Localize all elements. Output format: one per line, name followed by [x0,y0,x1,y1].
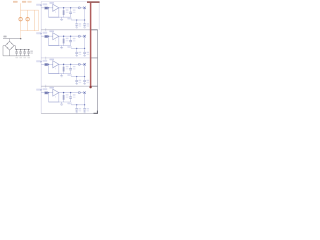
wire AC bottom rail [21,30,39,32]
wire bottom rail block2 [49,45,71,47]
divider dark seg 2 [91,57,98,59]
port bubble OUT1 [78,7,80,9]
junction AC-in [20,38,22,40]
sheet bottom edge [41,113,97,115]
label C3 value [23,57,26,58]
net label text (orange) top-left [13,1,18,3]
lamp/fuse F2 circle [26,18,29,21]
divider box2/box3 [41,57,97,59]
label C12 value [79,23,82,26]
port bubble OUT3 [78,63,80,65]
power bus vertical (red) [90,3,92,89]
resistor R12 (shunt) [63,7,65,17]
net name text IN1 [43,3,48,5]
wire decoupling rail block3 [71,76,85,77]
box1 top edge [41,1,87,3]
divider box1/box2 [41,29,97,31]
wire bridge left out [3,46,5,56]
wire output drop block1 [84,8,86,20]
label C1 value [15,57,18,58]
box pin tick divider 2 [45,57,47,60]
ground symbol block3 [60,74,63,77]
resistor R11 (series) [45,7,48,10]
power flag VCC block2 [67,46,71,48]
wire input block1 [41,7,45,9]
capacitor C4 (filter bank) [27,49,30,56]
op-amp U2 triangle [53,33,59,42]
sheet right edge [96,30,98,114]
wire decoupling rail block2 [71,48,85,49]
capacitor C33 (decoupling) [83,77,86,85]
wire output block2 [59,35,85,37]
box1 right edge (faint) [98,2,100,30]
label R42 value [66,94,69,98]
port bubble OUT4 [78,92,80,94]
wire bottom rail block3 [49,73,71,75]
label R12 value [66,9,69,13]
label C32 value [79,80,82,83]
label C21 value [73,38,76,42]
resistor R22 (shunt) [63,36,65,46]
label C11 value [73,10,76,14]
wire capacitor bottom rail [3,55,30,57]
wire bridge bottom out [9,50,11,56]
circuit schematic canvas [0,0,100,119]
net label IN1 (left of box) [36,4,42,6]
net label text (orange) right [27,1,31,3]
lamp/fuse F1 circle [19,18,22,21]
capacitor C41 (shunt) [69,92,72,102]
wire decoupling rail block1 [71,19,85,20]
wire feedback loop block3 [48,64,59,74]
label R32 value [66,66,69,69]
label C31 value [73,66,76,70]
wire bottom rail block1 [49,16,71,18]
divider dark seg 1 [91,29,98,31]
net label IN2 (left of box) [36,32,42,34]
op-amp U4 triangle [53,89,59,98]
wire AC feed horizontal [3,38,21,40]
label C2 value [19,57,22,58]
wire output drop block3 [84,64,86,76]
label C22 value [79,52,82,55]
ground symbol block1 [60,17,63,20]
net name text IN4 [43,88,48,90]
capacitor C23 (decoupling) [83,48,86,56]
ground symbol block4 [60,102,63,105]
wire AC branch horizontal [21,9,39,11]
power bus end junction [89,86,91,88]
bridge rectifier D1 (diode diamond) [5,41,14,50]
net flag X block2 [83,35,85,37]
op-amp U1 triangle [53,4,59,13]
wire loop vertical 2 [38,10,40,30]
label C23 value [87,52,90,55]
ground symbol block2 [60,46,63,49]
capacitor C31 (shunt) [69,64,72,74]
capacitor C22 (decoupling) [75,48,78,56]
divider box3/box4 [41,85,97,87]
label C43 value [87,108,90,111]
wire bridge right to cap rail [14,46,15,50]
capacitor C32 (decoupling) [75,77,78,85]
wire output drop block2 [84,36,86,48]
wire bottom rail block4 [49,101,71,103]
wire AC neutral vertical [27,10,29,30]
wire feedback loop block4 [48,92,59,102]
wire drop to bridge [20,31,22,39]
box pin tick divider 3 [45,85,47,88]
net label IN3 (left of box) [36,60,42,62]
label C41 value [73,94,76,97]
power flag VCC block1 [67,18,71,20]
capacitor C2 (filter bank) [19,49,22,56]
capacitor C3 (filter bank) [23,49,26,56]
resistor R21 (series) [45,35,48,38]
net name text IN3 [43,60,48,62]
net label text (orange) top-mid [22,1,26,3]
designator U3A text [49,59,54,61]
capacitor C12 (decoupling) [75,20,78,28]
label C4 value [27,57,30,58]
wire feedback loop block2 [48,36,59,46]
label C13 value [87,23,90,26]
resistor R32 (shunt) [63,64,65,74]
net flag X block3 [83,63,85,65]
wire input block3 [41,63,45,65]
label C4 values (right) [30,51,33,54]
label R22 value [66,38,69,42]
capacitor C13 (decoupling) [83,20,86,28]
net name text IN2 [43,32,48,34]
capacitor C43 (decoupling) [83,105,86,113]
wire output drop block4 [84,93,86,105]
wire loop vertical 1 [34,10,36,30]
wire input block2 [41,35,45,37]
sheet left edge [40,1,42,113]
net flag X block1 [83,7,85,9]
power flag VCC block4 [67,102,71,104]
net label IN4 (left of box) [36,89,42,91]
wire bridge top stub [9,39,11,42]
box pin tick divider 1 [45,28,47,31]
capacitor C11 (shunt) [69,7,72,17]
resistor R42 (shunt) [63,92,65,102]
sheet corner dark [94,111,98,114]
label C33 value [87,80,90,83]
op-amp U3 triangle [53,61,59,70]
wire output block3 [59,63,85,65]
wire feedback loop block1 [48,7,59,17]
label D-bridge text [3,36,6,38]
designator U1A text [49,2,54,4]
power bus top bar (red) [87,1,100,3]
wire to op-amp block3 [48,63,53,65]
port bubble OUT2 [78,35,80,37]
wire AC live vertical [20,3,22,30]
resistor R41 (series) [45,92,48,95]
designator U2A text [49,31,54,33]
power flag VCC block3 [67,74,71,76]
divider dark seg 3 [91,85,98,87]
wire to op-amp block1 [48,7,53,9]
designator U4A text [49,87,54,89]
wire to op-amp block2 [48,35,53,37]
resistor R31 (series) [45,63,48,66]
wire output block4 [59,92,85,94]
capacitor C42 (decoupling) [75,105,78,113]
capacitor C1 (filter bank) [15,49,18,56]
capacitor C21 (shunt) [69,36,72,46]
wire decoupling rail block4 [71,104,85,105]
wire input block4 [41,92,45,94]
net flag X block4 [83,91,85,93]
wire capacitor top rail [15,49,29,51]
wire to op-amp block4 [48,92,53,94]
label C42 value [79,108,82,111]
wire output block1 [59,7,85,9]
